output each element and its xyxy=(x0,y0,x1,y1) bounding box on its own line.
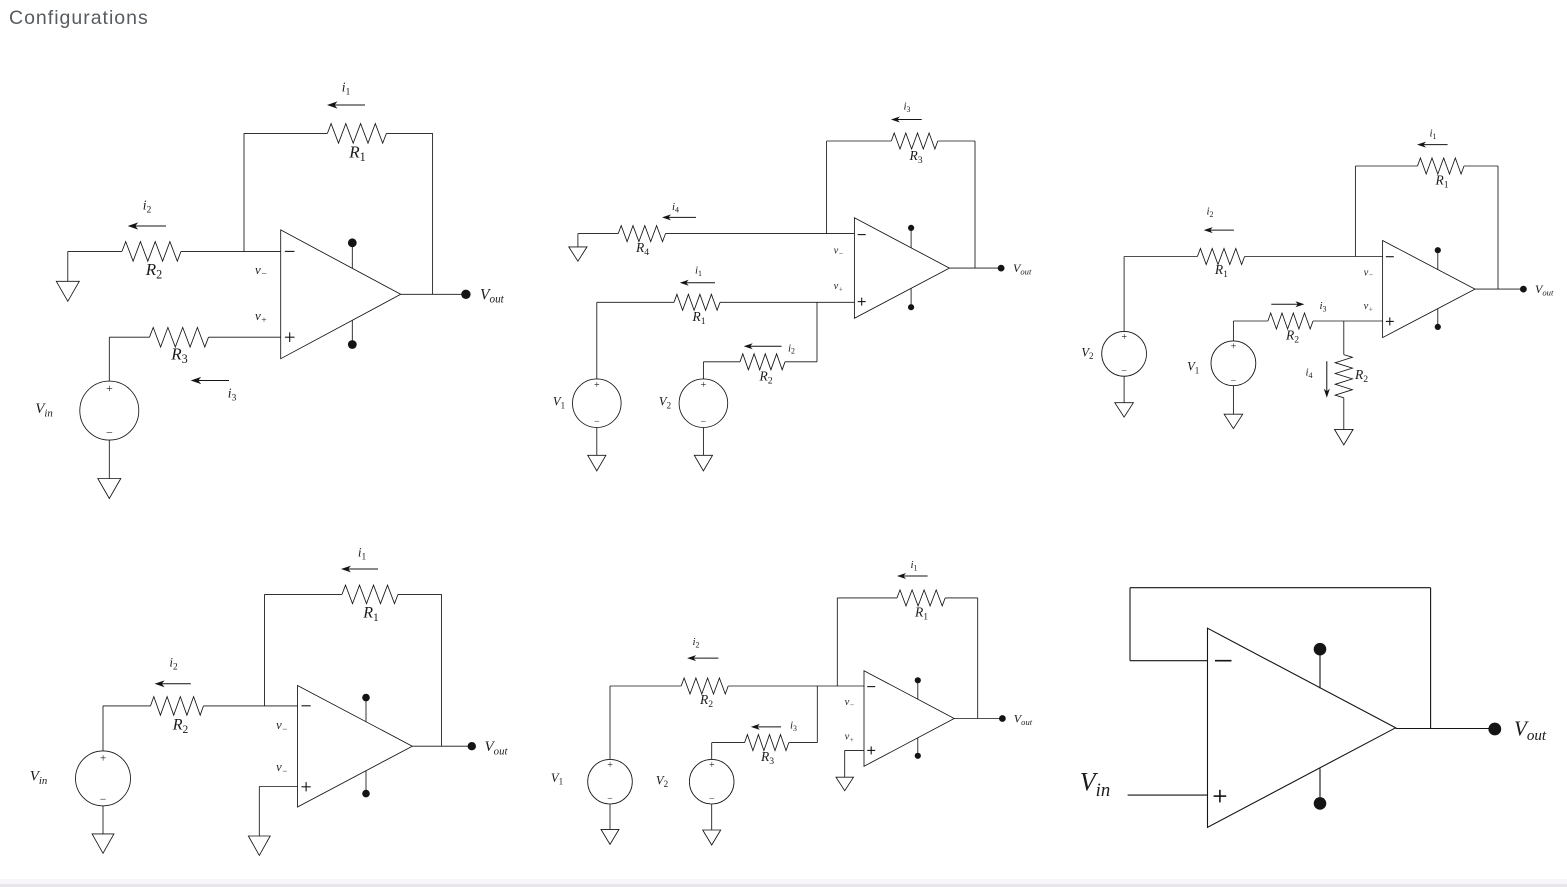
label Vout xyxy=(480,286,505,305)
label V1 (circuit 5) xyxy=(551,771,563,787)
wire Vin bottom lead xyxy=(108,440,110,478)
wire V2 bottom lead (circuit 5) xyxy=(711,804,713,830)
svg-text:R1: R1 xyxy=(914,605,928,623)
op-amp U3 positive supply pin xyxy=(1435,247,1441,270)
label Vout (circuit 2) xyxy=(1013,261,1032,277)
svg-text:−: − xyxy=(1121,366,1128,377)
op-amp U3 body xyxy=(1383,241,1475,338)
wire V1 top lead (circuit 3) xyxy=(1232,321,1234,341)
label i4 (circuit 3) xyxy=(1305,367,1312,380)
wire feedback top horizontal left lead xyxy=(244,132,327,134)
svg-text:R3: R3 xyxy=(760,749,774,767)
current arrow i3 xyxy=(191,377,229,384)
wire V1 bottom lead xyxy=(596,428,598,456)
label i2 (circuit 4) xyxy=(169,655,178,673)
current arrow i3 (circuit 2) xyxy=(891,117,922,123)
current arrow i2 (circuit 4) xyxy=(155,680,191,687)
label V2 (circuit 5) xyxy=(656,773,668,789)
resistor R3 (feedback, circuit 2) xyxy=(891,133,938,149)
wire feedback right vertical (circuit 6) xyxy=(1430,588,1432,729)
resistor R2 (circuit 4) xyxy=(151,697,204,716)
label R1 feedback (circuit 3) xyxy=(1434,173,1448,191)
op-amp U4 body xyxy=(298,686,413,808)
svg-text:i3: i3 xyxy=(228,386,237,404)
label i3 (circuit 5) xyxy=(790,720,797,733)
label v- (circuit 1) xyxy=(255,262,267,280)
svg-text:V1: V1 xyxy=(553,395,565,411)
ground (V2, circuit 5) xyxy=(703,830,721,845)
voltage source V1 (circuit 5) xyxy=(588,759,633,804)
label R2 (circuit 4) xyxy=(172,717,189,737)
label Vout (circuit 4) xyxy=(485,739,509,757)
svg-text:R2: R2 xyxy=(1354,367,1368,385)
wire feedback to inverting input (circuit 6) xyxy=(1130,660,1208,662)
wire non-inverting drop (circuit 4) xyxy=(258,787,260,837)
svg-text:Vout: Vout xyxy=(480,286,505,305)
node Vout (circuit 1) xyxy=(461,290,470,299)
node Vout (circuit 5) xyxy=(999,715,1006,722)
current arrow i2 (circuit 2) xyxy=(744,343,782,349)
wire R2 ground drop xyxy=(67,251,69,281)
wire V2 to R2 xyxy=(703,361,740,363)
svg-text:R1: R1 xyxy=(348,143,365,165)
node Vout (circuit 3) xyxy=(1520,286,1527,293)
label R1 (circuit 2) xyxy=(691,309,705,327)
svg-text:Vout: Vout xyxy=(1014,711,1033,727)
label v+ (circuit 4) xyxy=(276,760,288,776)
wire feedback top horizontal right lead xyxy=(386,132,432,134)
wire feedback top right lead (circuit 3) xyxy=(1464,165,1498,167)
wire R1 to inverting input (circuit 3) xyxy=(1245,256,1383,258)
op-amp U2 non-inverting input marker xyxy=(858,298,866,306)
node: circuit 4 inverting amplifier xyxy=(30,545,509,856)
ground (V2, circuit 2) xyxy=(694,455,712,471)
op-amp U6 negative supply pin xyxy=(1314,769,1327,810)
wire junction to vertical R2 xyxy=(1343,321,1345,355)
wire R2 to inverting input (circuit 5) xyxy=(728,685,864,687)
svg-text:i2: i2 xyxy=(788,342,795,355)
svg-text:R2: R2 xyxy=(699,692,713,710)
wire R2 to junction (circuit 2) xyxy=(785,361,817,363)
op-amp U5 body xyxy=(864,671,954,767)
svg-text:v−: v− xyxy=(1364,267,1374,279)
op-amp U5 negative supply pin xyxy=(915,738,921,759)
voltage source Vin xyxy=(80,381,139,440)
svg-text:R3: R3 xyxy=(170,345,187,367)
label i2 xyxy=(143,198,152,216)
svg-text:V2: V2 xyxy=(1081,345,1093,361)
label v- (circuit 5) xyxy=(845,697,855,709)
op-amp U1 body xyxy=(281,230,401,359)
label i3 (circuit 3) xyxy=(1319,300,1326,313)
label i1 (circuit 2) xyxy=(695,265,702,278)
svg-text:i3: i3 xyxy=(790,720,797,733)
svg-text:R1: R1 xyxy=(691,309,705,327)
ground (V2, circuit 3) xyxy=(1115,403,1134,417)
op-amp U3 negative supply pin xyxy=(1435,309,1441,331)
svg-text:R1: R1 xyxy=(1434,173,1448,191)
label R4 xyxy=(635,240,649,258)
label v+ (circuit 2) xyxy=(834,281,844,293)
svg-text:v+: v+ xyxy=(1364,301,1374,313)
label R2 vertical (circuit 3) xyxy=(1354,367,1368,385)
label i2 (circuit 2) xyxy=(788,342,795,355)
resistor R1 (feedback) xyxy=(327,124,386,144)
voltage source Vin (circuit 4) xyxy=(76,751,131,806)
svg-text:Vout: Vout xyxy=(1013,261,1032,277)
svg-text:i2: i2 xyxy=(169,655,178,673)
wire V1 to R2 (circuit 5) xyxy=(610,685,681,687)
wire output (circuit 3) xyxy=(1475,288,1523,290)
svg-text:i1: i1 xyxy=(695,265,702,278)
op-amp U5 inverting input marker xyxy=(867,686,875,688)
label R1 input (circuit 3) xyxy=(1214,262,1228,280)
svg-text:v−: v− xyxy=(255,262,267,280)
svg-text:+: + xyxy=(593,380,600,391)
op-amp U4 inverting input marker xyxy=(302,705,311,707)
op-amp U6 positive supply pin xyxy=(1314,643,1327,689)
svg-text:i1: i1 xyxy=(358,545,367,563)
svg-text:v−: v− xyxy=(845,697,855,709)
wire V1 bottom lead (circuit 5) xyxy=(609,804,611,829)
label v- (circuit 4) xyxy=(276,718,288,734)
svg-text:−: − xyxy=(700,417,707,428)
label i1 (circuit 4) xyxy=(358,545,367,563)
op-amp U4 negative supply pin xyxy=(362,771,370,798)
label v- (circuit 2) xyxy=(834,246,844,258)
wire feedback top left lead (circuit 3) xyxy=(1355,165,1417,167)
svg-text:−: − xyxy=(607,794,614,805)
node: circuit 6 voltage follower xyxy=(1080,588,1547,828)
svg-text:i2: i2 xyxy=(692,636,699,649)
svg-text:Vin: Vin xyxy=(30,769,48,787)
wire V2 bottom lead xyxy=(702,428,704,456)
svg-text:V2: V2 xyxy=(659,395,671,411)
wire feedback right vertical (circuit 5) xyxy=(977,598,979,719)
page title xyxy=(9,7,149,30)
op-amp U3 inverting input marker xyxy=(1386,256,1394,258)
wire output (circuit 5) xyxy=(954,718,1002,720)
svg-text:v−: v− xyxy=(834,246,844,258)
svg-text:v−: v− xyxy=(276,718,288,734)
svg-text:i1: i1 xyxy=(342,80,351,98)
svg-text:Vin: Vin xyxy=(35,401,53,419)
svg-text:R2: R2 xyxy=(758,369,772,387)
wire feedback left vertical (circuit 5) xyxy=(836,598,838,686)
resistor R1 (feedback, circuit 3) xyxy=(1418,158,1465,174)
ground (R4 input) xyxy=(569,247,587,261)
svg-text:−: − xyxy=(99,794,107,806)
resistor R1 (feedback, circuit 5) xyxy=(897,590,945,606)
resistor R3 (circuit 5) xyxy=(745,735,789,751)
svg-text:i4: i4 xyxy=(1305,367,1312,380)
svg-text:V1: V1 xyxy=(1187,360,1199,376)
ground (V1, circuit 5) xyxy=(601,829,619,844)
wire feedback top left lead (circuit 2) xyxy=(827,140,892,142)
wire output (circuit 6) xyxy=(1396,728,1495,730)
current arrow i1 (circuit 2) xyxy=(680,280,715,286)
voltage source V1 (circuit 3) xyxy=(1211,341,1256,386)
wire Vin to R2 (circuit 4) xyxy=(103,705,151,707)
op-amp U2 positive supply pin xyxy=(908,225,914,248)
svg-text:i2: i2 xyxy=(143,198,152,216)
wire R4 to inverting input xyxy=(666,233,855,235)
label i4 (circuit 2) xyxy=(672,201,679,214)
op-amp U2 inverting input marker xyxy=(858,234,866,236)
op-amp U6 non-inverting input marker xyxy=(1214,790,1227,803)
resistor R4 xyxy=(618,226,665,242)
op-amp U4 non-inverting input marker xyxy=(302,782,311,791)
resistor R2 (circuit 3) xyxy=(1268,313,1313,329)
label v- (circuit 3) xyxy=(1364,267,1374,279)
wire R2 to non-inverting input (circuit 3) xyxy=(1313,320,1383,322)
svg-text:+: + xyxy=(607,760,614,771)
label i3 (circuit 2) xyxy=(903,101,910,114)
current arrow i3 (circuit 5) xyxy=(751,724,781,730)
label R1 (circuit 5) xyxy=(914,605,928,623)
ground (Vin, circuit 4) xyxy=(92,834,114,853)
wire feedback top left lead (circuit 5) xyxy=(837,597,897,599)
op-amp U5 non-inverting input marker xyxy=(867,746,875,754)
op-amp U2 body xyxy=(854,218,949,318)
resistor R1 (feedback, circuit 4) xyxy=(342,585,398,604)
current arrow i4 (circuit 2) xyxy=(662,214,696,220)
node Vout (circuit 6) xyxy=(1488,723,1501,736)
svg-text:+: + xyxy=(1121,332,1128,343)
label Vout (circuit 3) xyxy=(1535,282,1554,298)
wire V2 to R3 (circuit 5) xyxy=(712,742,745,744)
wire feedback right vertical (circuit 4) xyxy=(441,594,443,746)
wire output (circuit 4) xyxy=(412,745,472,747)
svg-text:Vin: Vin xyxy=(1080,768,1110,802)
current arrow i1 (circuit 3) xyxy=(1417,142,1448,148)
label v+ (circuit 1) xyxy=(255,308,267,326)
svg-text:i4: i4 xyxy=(672,201,679,214)
current arrow i4 (circuit 3) xyxy=(1324,361,1330,398)
label R3 (circuit 5) xyxy=(760,749,774,767)
wire feedback right vertical (circuit 2) xyxy=(974,141,976,268)
ground (V1, circuit 3) xyxy=(1224,414,1243,428)
op-amp U2 negative supply pin xyxy=(908,288,914,310)
current arrow i1 xyxy=(327,101,365,108)
wire V1 top lead (circuit 5) xyxy=(609,686,611,759)
voltage source V1 (circuit 2) xyxy=(573,379,622,428)
voltage source V2 (circuit 5) xyxy=(689,759,734,804)
bottom panel divider xyxy=(0,879,1567,884)
label Vout (circuit 6) xyxy=(1514,716,1547,744)
ground (non-inverting, circuit 5) xyxy=(836,777,854,791)
op-amp U1 negative supply pin xyxy=(348,320,357,349)
ground (non-inverting, circuit 4) xyxy=(248,836,270,855)
voltage source V2 (circuit 2) xyxy=(679,379,728,428)
svg-text:R1: R1 xyxy=(1214,262,1228,280)
svg-text:v−: v− xyxy=(276,760,288,776)
svg-text:Vout: Vout xyxy=(485,739,509,757)
node Vout (circuit 4) xyxy=(468,742,476,750)
wire V2 top lead (circuit 3) xyxy=(1123,257,1125,332)
op-amp U5 positive supply pin xyxy=(915,677,921,699)
svg-text:V1: V1 xyxy=(551,771,563,787)
wire junction vertical (circuit 2) xyxy=(816,302,818,362)
label v+ (circuit 3) xyxy=(1364,301,1374,313)
svg-text:Vout: Vout xyxy=(1535,282,1554,298)
label i2 (circuit 3) xyxy=(1206,206,1213,219)
wire V1 to R1 xyxy=(597,301,674,303)
label V2 (circuit 3) xyxy=(1081,345,1093,361)
svg-text:R4: R4 xyxy=(635,240,649,258)
wire non-inverting stub (circuit 5) xyxy=(845,749,864,751)
ground (R2 input) xyxy=(56,281,79,301)
svg-text:i1: i1 xyxy=(1429,128,1436,141)
voltage source V2 (circuit 3) xyxy=(1102,331,1147,376)
svg-text:v+: v+ xyxy=(845,732,855,744)
svg-text:i2: i2 xyxy=(1206,206,1213,219)
wire V2 bottom lead (circuit 3) xyxy=(1123,376,1125,403)
wire feedback left vertical (circuit 6) xyxy=(1129,588,1131,661)
wire feedback top right lead (circuit 2) xyxy=(938,140,975,142)
label V1 (circuit 2) xyxy=(553,395,565,411)
svg-text:R1: R1 xyxy=(362,605,379,625)
wire feedback left vertical (circuit 3) xyxy=(1354,166,1356,257)
svg-text:V2: V2 xyxy=(656,773,668,789)
wire ground stub to R4 xyxy=(578,233,618,235)
wire non-inverting input stub (circuit 4) xyxy=(259,786,297,788)
current arrow i1 (circuit 4) xyxy=(341,566,378,573)
wire vertical R2 to ground xyxy=(1343,398,1345,430)
wire feedback top (circuit 6) xyxy=(1130,587,1431,589)
wire Vin bottom lead (circuit 4) xyxy=(102,806,104,834)
label R2 (circuit 3) xyxy=(1285,328,1299,346)
resistor R2 (inverting input) xyxy=(122,242,181,262)
label R2 xyxy=(145,260,162,282)
svg-text:−: − xyxy=(1230,375,1237,386)
wire gnd drop R4 xyxy=(577,234,579,247)
wire Vin top lead (circuit 4) xyxy=(102,706,104,751)
label i1 (circuit 3) xyxy=(1429,128,1436,141)
svg-text:−: − xyxy=(593,417,600,428)
wire V1 to R2 xyxy=(1233,320,1268,322)
wire feedback right vertical (circuit 3) xyxy=(1497,166,1499,289)
node Vout (circuit 2) xyxy=(998,265,1005,272)
label i2 (circuit 5) xyxy=(692,636,699,649)
label Vin (circuit 4) xyxy=(30,769,48,787)
svg-text:R3: R3 xyxy=(908,148,922,166)
ground (V1, circuit 2) xyxy=(588,455,606,471)
wire R2 left lead xyxy=(68,250,122,252)
wire R2 to inverting input (circuit 4) xyxy=(204,705,298,707)
svg-text:v+: v+ xyxy=(255,308,267,326)
wire V2 to R1 input xyxy=(1124,256,1197,258)
resistor R2 (circuit 5) xyxy=(681,678,728,694)
current arrow i3 (circuit 3) xyxy=(1271,301,1304,307)
wire V2 top lead (circuit 5) xyxy=(711,743,713,760)
op-amp U1 non-inverting input marker xyxy=(285,332,295,342)
wire V1 bottom lead (circuit 3) xyxy=(1232,386,1234,415)
svg-text:+: + xyxy=(1230,342,1237,353)
wire output xyxy=(401,293,466,295)
wire V2 top lead xyxy=(702,362,704,379)
svg-text:i1: i1 xyxy=(910,559,917,572)
wire V1 top lead xyxy=(596,302,598,379)
op-amp U1 inverting input marker xyxy=(285,250,295,252)
wire feedback top-left vertical xyxy=(243,133,245,251)
current arrow i2 xyxy=(128,222,166,229)
label i1 (circuit 5) xyxy=(910,559,917,572)
resistor R3 (non-inverting input) xyxy=(150,327,209,347)
node: circuit 5 summing amplifier xyxy=(551,559,1033,845)
label Vout (circuit 5) xyxy=(1014,711,1033,727)
svg-text:+: + xyxy=(99,752,107,764)
label R1 (circuit 4) xyxy=(362,605,379,625)
label Vin (circuit 6) xyxy=(1080,768,1110,802)
label i1 xyxy=(342,80,351,98)
label R3 xyxy=(170,345,187,367)
svg-text:v+: v+ xyxy=(834,281,844,293)
node: circuit 3 difference amplifier xyxy=(1081,128,1554,445)
resistor R1 (input, circuit 3) xyxy=(1197,249,1244,265)
current arrow i1 (circuit 5) xyxy=(897,573,928,579)
current arrow i2 (circuit 5) xyxy=(687,655,718,661)
label R2 (circuit 2) xyxy=(758,369,772,387)
op-amp U6 body xyxy=(1208,628,1396,827)
ground (Vin) xyxy=(98,479,121,499)
wire feedback top right lead (circuit 4) xyxy=(398,593,442,595)
svg-text:+: + xyxy=(700,380,707,391)
wire R2 to inverting input xyxy=(181,250,281,252)
label R2 (circuit 5) xyxy=(699,692,713,710)
resistor R1 (circuit 2) xyxy=(674,294,720,310)
node: circuit 1 inverting amplifier xyxy=(35,80,504,499)
label R3 (circuit 2) xyxy=(908,148,922,166)
resistor R2 (vertical, circuit 3) xyxy=(1335,355,1352,398)
wire non-inverting drop (circuit 5) xyxy=(844,750,846,777)
svg-text:+: + xyxy=(708,760,715,771)
label V1 (circuit 3) xyxy=(1187,360,1199,376)
wire R3 to junction (circuit 5) xyxy=(789,742,818,744)
wire feedback left vertical (circuit 2) xyxy=(826,141,828,234)
op-amp U1 positive supply pin xyxy=(348,238,357,268)
op-amp U4 positive supply pin xyxy=(362,694,370,722)
svg-text:i3: i3 xyxy=(1319,300,1326,313)
svg-text:Vout: Vout xyxy=(1514,716,1547,744)
label Vin xyxy=(35,401,53,419)
wire R1 to non-inverting input (circuit 2) xyxy=(720,301,854,303)
wire junction vertical (circuit 5) xyxy=(816,686,818,743)
svg-text:−: − xyxy=(708,794,715,805)
current arrow i2 (circuit 3) xyxy=(1204,227,1234,233)
wire Vin lead (circuit 6) xyxy=(1128,794,1208,796)
wire R3 to non-inverting input xyxy=(209,336,281,338)
svg-text:+: + xyxy=(105,381,113,395)
ground (vertical R2, circuit 3) xyxy=(1335,429,1354,445)
op-amp U3 non-inverting input marker xyxy=(1386,317,1394,325)
node: circuit 2 summing amplifier xyxy=(553,101,1032,471)
svg-text:R2: R2 xyxy=(172,717,189,737)
wire feedback left vertical (circuit 4) xyxy=(264,594,266,706)
svg-text:R2: R2 xyxy=(1285,328,1299,346)
label i3 xyxy=(228,386,237,404)
label V2 (circuit 2) xyxy=(659,395,671,411)
svg-text:R2: R2 xyxy=(145,260,162,282)
wire feedback right vertical xyxy=(432,133,434,294)
wire Vin top lead xyxy=(108,337,110,381)
wire feedback top right lead (circuit 5) xyxy=(945,597,978,599)
label R1 xyxy=(348,143,365,165)
wire output (circuit 2) xyxy=(949,267,1001,269)
svg-text:−: − xyxy=(105,426,113,440)
svg-text:i3: i3 xyxy=(903,101,910,114)
wire Vin to R3 xyxy=(109,336,149,338)
